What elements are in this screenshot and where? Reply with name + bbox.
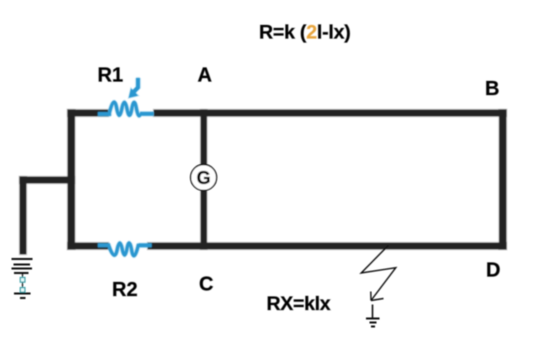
svg-text:R2: R2 — [112, 279, 138, 301]
svg-text:G: G — [197, 168, 211, 188]
svg-text:R1: R1 — [98, 65, 124, 87]
svg-text:A: A — [198, 65, 212, 87]
svg-text:RX=klx: RX=klx — [267, 293, 331, 315]
svg-text:B: B — [485, 78, 499, 100]
svg-text:D: D — [486, 259, 500, 281]
svg-text:R=k (2l-lx): R=k (2l-lx) — [259, 22, 351, 44]
svg-text:C: C — [199, 274, 213, 296]
